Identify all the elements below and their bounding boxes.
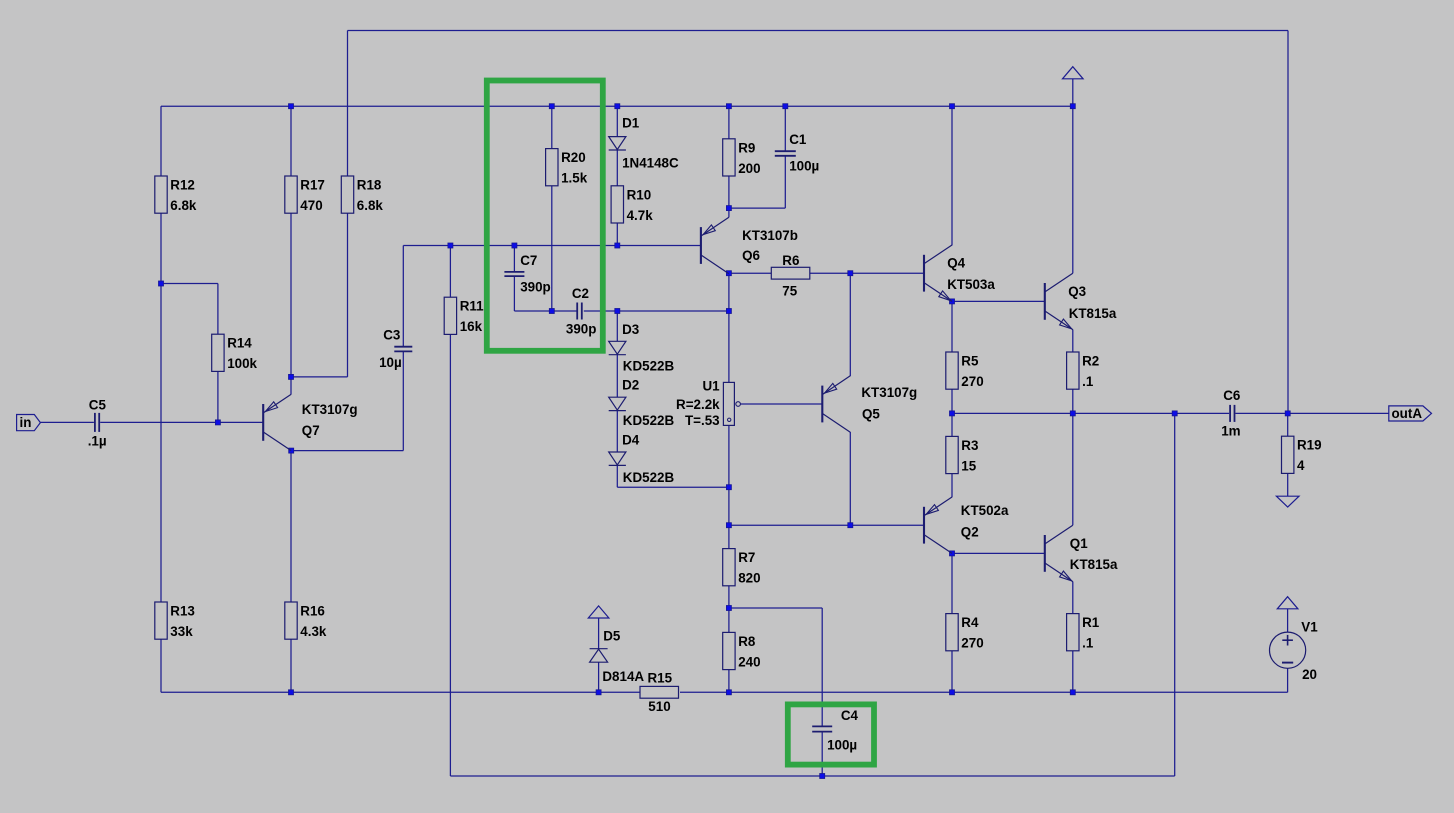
svg-text:20: 20 bbox=[1302, 667, 1317, 682]
svg-text:D5: D5 bbox=[603, 628, 621, 643]
junction R12 bottom bbox=[159, 281, 164, 286]
junction R2 bottom bbox=[1070, 411, 1075, 416]
svg-text:15: 15 bbox=[961, 458, 976, 473]
svg-text:R=2.2k: R=2.2k bbox=[676, 397, 720, 412]
svg-text:C5: C5 bbox=[89, 398, 107, 413]
wire: Q7 collector node to C3 and R16 bbox=[291, 451, 403, 693]
wire: Q3 collector to +V bbox=[1072, 106, 1074, 273]
svg-text:KT503a: KT503a bbox=[947, 277, 995, 292]
svg-text:Q1: Q1 bbox=[1070, 536, 1088, 551]
junction Q7 emitter node bbox=[289, 374, 294, 379]
svg-text:KT3107b: KT3107b bbox=[742, 228, 798, 243]
svg-text:R16: R16 bbox=[300, 604, 325, 619]
svg-text:R8: R8 bbox=[738, 634, 756, 649]
svg-text:R3: R3 bbox=[961, 438, 978, 453]
wire: C1 branch bbox=[729, 106, 785, 208]
junction output node bbox=[1285, 411, 1290, 416]
svg-text:T=.53: T=.53 bbox=[685, 413, 720, 428]
svg-text:C1: C1 bbox=[789, 132, 807, 147]
junction D5 anode bbox=[596, 690, 601, 695]
svg-text:470: 470 bbox=[300, 198, 322, 213]
svg-text:10µ: 10µ bbox=[379, 355, 402, 370]
svg-text:R18: R18 bbox=[357, 178, 382, 193]
svg-text:C2: C2 bbox=[572, 286, 589, 301]
capacitor C7 plates bbox=[504, 272, 524, 276]
resistor R16 body bbox=[285, 602, 297, 639]
wire: R12/R14 link and R14 column bbox=[161, 284, 218, 423]
wire: Q2 emitter stub bbox=[951, 496, 953, 498]
highlight box around C4 bbox=[788, 704, 874, 764]
wire: U1 wiper to Q5 base bbox=[740, 403, 822, 405]
wire: Q6 collector to R6 and U1 column bbox=[729, 273, 924, 382]
junction C2 line end bbox=[726, 309, 731, 314]
svg-text:D1: D1 bbox=[622, 116, 640, 131]
wire: bootstrap top rail from R18 top to output node bbox=[348, 31, 1289, 414]
junction D1 top bbox=[615, 104, 620, 109]
svg-text:Q5: Q5 bbox=[862, 406, 880, 421]
svg-text:270: 270 bbox=[961, 374, 983, 389]
junction Q4 collector top bbox=[950, 104, 955, 109]
wire: C4 branch bbox=[729, 608, 822, 776]
svg-text:820: 820 bbox=[738, 571, 760, 586]
svg-text:KD522B: KD522B bbox=[623, 470, 675, 485]
wire: Q5 emitter to R6 node bbox=[849, 273, 851, 376]
capacitor C5 plates bbox=[95, 413, 99, 432]
junction D4 line bbox=[726, 485, 731, 490]
junction R4 bottom bbox=[950, 690, 955, 695]
svg-text:240: 240 bbox=[738, 654, 760, 669]
junction C4 tap bbox=[726, 606, 731, 611]
svg-text:C3: C3 bbox=[383, 327, 400, 342]
svg-text:4.7k: 4.7k bbox=[627, 208, 654, 223]
svg-text:16k: 16k bbox=[460, 319, 483, 334]
resistor R12 body bbox=[155, 176, 167, 213]
svg-text:R5: R5 bbox=[961, 354, 979, 369]
capacitor C2 plates bbox=[577, 303, 582, 320]
diode D4 bbox=[609, 452, 626, 465]
svg-text:R14: R14 bbox=[227, 336, 252, 351]
junction R20 top bbox=[549, 104, 554, 109]
junction Q4 emitter node bbox=[950, 299, 955, 304]
voltage source V1 bbox=[1270, 632, 1306, 668]
svg-text:R11: R11 bbox=[460, 299, 484, 314]
wire: Q2 base line bbox=[729, 524, 924, 526]
diode D3 bbox=[609, 341, 626, 354]
junction D3 top bbox=[615, 309, 620, 314]
junction Q7 collector node bbox=[289, 448, 294, 453]
junction Q5 emitter node bbox=[848, 271, 853, 276]
junction +V flag node bbox=[1070, 104, 1075, 109]
junction C1 top bbox=[783, 104, 788, 109]
svg-text:Q7: Q7 bbox=[302, 423, 320, 438]
junction R9-C1 node bbox=[726, 206, 731, 211]
wire: ground line bbox=[161, 668, 1288, 692]
wire: +V supply rail bbox=[161, 105, 1073, 107]
transistor Q6 bbox=[701, 217, 729, 273]
wire: D1-R10 branch bbox=[616, 106, 618, 245]
wire: R11 column and feedback bottom line bbox=[450, 246, 1174, 777]
junction R5 bottom bbox=[950, 411, 955, 416]
resistor R14 body bbox=[212, 334, 224, 371]
wire: power flag stem at +V rail bbox=[1072, 79, 1074, 106]
node outA flag bbox=[1389, 406, 1432, 421]
svg-text:KT815a: KT815a bbox=[1069, 306, 1117, 321]
wire: R12-R13 column bbox=[160, 106, 162, 692]
junction R17 top bbox=[289, 104, 294, 109]
svg-text:4.3k: 4.3k bbox=[300, 624, 327, 639]
svg-text:R10: R10 bbox=[627, 187, 652, 202]
power flag above D5 bbox=[588, 606, 609, 618]
svg-text:Q6: Q6 bbox=[742, 248, 760, 263]
wire: R20 branch bbox=[551, 106, 553, 311]
svg-text:KT3107g: KT3107g bbox=[302, 402, 358, 417]
wire: R18 column and link to Q7 emitter bbox=[291, 31, 348, 377]
svg-text:Q3: Q3 bbox=[1068, 284, 1086, 299]
junction Q2 collector node bbox=[950, 551, 955, 556]
svg-text:33k: 33k bbox=[170, 624, 193, 639]
svg-text:R1: R1 bbox=[1082, 615, 1100, 630]
transistor Q1 bbox=[1045, 525, 1073, 581]
svg-text:D814A: D814A bbox=[602, 669, 644, 684]
wire: D3-D2-D4 chain bbox=[617, 311, 729, 487]
power flag at +V rail bbox=[1063, 67, 1084, 79]
svg-text:V1: V1 bbox=[1301, 620, 1318, 635]
wire: input line bbox=[40, 421, 263, 423]
resistor R4 body bbox=[946, 614, 958, 651]
svg-text:R20: R20 bbox=[561, 150, 586, 165]
wire: V1 stem to power flag bbox=[1287, 609, 1289, 632]
svg-text:.1: .1 bbox=[1082, 374, 1094, 389]
wire: output line bbox=[952, 412, 1389, 414]
svg-text:.1: .1 bbox=[1082, 636, 1094, 651]
highlight box around R20/C7/C2 bbox=[487, 81, 603, 351]
resistor R5 body bbox=[946, 352, 958, 389]
wire: Q1 collector to output node bbox=[1072, 413, 1074, 525]
power flag above V1 bbox=[1277, 597, 1298, 609]
svg-text:Q2: Q2 bbox=[961, 524, 979, 539]
svg-text:D4: D4 bbox=[622, 433, 640, 448]
diode D2 bbox=[609, 397, 626, 410]
svg-text:C4: C4 bbox=[841, 708, 859, 723]
transistor Q7 bbox=[263, 394, 291, 450]
wire: C7 branch bbox=[513, 246, 515, 312]
svg-text:R4: R4 bbox=[961, 615, 979, 630]
svg-text:200: 200 bbox=[738, 161, 760, 176]
junction Q6 collector bbox=[726, 271, 731, 276]
svg-text:R2: R2 bbox=[1082, 354, 1099, 369]
junction R1 bottom bbox=[1070, 690, 1075, 695]
resistor R2 body bbox=[1067, 352, 1079, 389]
wire: Q5 collector to Q2 base line bbox=[849, 432, 851, 525]
svg-text:in: in bbox=[20, 415, 32, 430]
junction C4 bottom bbox=[820, 774, 825, 779]
wire: R19 branch bbox=[1287, 413, 1289, 496]
resistor R11 body bbox=[444, 297, 456, 334]
wire: Q6 emitter stub bbox=[728, 208, 730, 217]
transistor Q3 bbox=[1045, 273, 1073, 329]
wire: Q7 emitter stub bbox=[290, 377, 292, 394]
svg-text:KT3107g: KT3107g bbox=[861, 385, 917, 400]
junction Q2 base line bbox=[726, 523, 731, 528]
junction R14 bottom bbox=[215, 420, 220, 425]
wire: C3 column bbox=[403, 246, 450, 451]
svg-text:100µ: 100µ bbox=[789, 159, 819, 174]
svg-text:U1: U1 bbox=[702, 378, 720, 393]
junction R10 bottom bbox=[615, 243, 620, 248]
junction R20 bottom bbox=[549, 309, 554, 314]
junction Q5 collector node bbox=[848, 523, 853, 528]
wire: Q4 emitter to Q3 base bbox=[952, 300, 1045, 302]
svg-text:510: 510 bbox=[648, 699, 670, 714]
svg-text:4: 4 bbox=[1297, 458, 1305, 473]
svg-text:.1µ: .1µ bbox=[88, 434, 107, 449]
svg-text:270: 270 bbox=[961, 636, 983, 651]
wire: D5 branch bbox=[598, 618, 600, 692]
svg-text:R9: R9 bbox=[738, 140, 755, 155]
capacitor C1 plates bbox=[775, 151, 796, 156]
node in flag bbox=[17, 415, 41, 431]
svg-text:R6: R6 bbox=[782, 253, 799, 268]
svg-text:6.8k: 6.8k bbox=[170, 198, 197, 213]
capacitor C4 plates bbox=[812, 726, 832, 731]
resistor R10 body bbox=[611, 186, 623, 223]
svg-text:R7: R7 bbox=[738, 550, 755, 565]
svg-text:75: 75 bbox=[782, 283, 797, 298]
resistor R18 body bbox=[341, 176, 353, 213]
capacitor C3 plates bbox=[394, 347, 412, 352]
junction R11 top bbox=[448, 243, 453, 248]
svg-text:D3: D3 bbox=[622, 322, 639, 337]
wire: C2 line bbox=[514, 310, 729, 312]
resistor R9 body bbox=[723, 139, 735, 176]
svg-text:KD522B: KD522B bbox=[623, 359, 675, 374]
wire: Q2 collector to Q1 base and R4 bbox=[952, 553, 1045, 692]
wire: U1 lower column with taps bbox=[728, 425, 730, 692]
svg-text:C7: C7 bbox=[520, 253, 537, 268]
zener diode D5 bbox=[590, 649, 608, 663]
junction R16 bottom bbox=[289, 690, 294, 695]
svg-text:R15: R15 bbox=[648, 671, 673, 686]
svg-text:C6: C6 bbox=[1223, 388, 1240, 403]
resistor R8 body bbox=[723, 632, 735, 669]
capacitor C6 plates bbox=[1230, 405, 1234, 422]
resistor R6 body bbox=[771, 267, 810, 279]
svg-text:6.8k: 6.8k bbox=[357, 198, 384, 213]
transistor Q2 bbox=[924, 497, 952, 553]
svg-text:R12: R12 bbox=[170, 178, 195, 193]
svg-text:100µ: 100µ bbox=[827, 737, 857, 752]
resistor R7 body bbox=[723, 549, 735, 586]
junction R9 top bbox=[726, 104, 731, 109]
svg-text:Q4: Q4 bbox=[947, 255, 965, 270]
wire: R5 branch bbox=[951, 301, 953, 413]
svg-text:R17: R17 bbox=[300, 178, 325, 193]
wire: Q1 emitter to R1 bbox=[1072, 582, 1074, 693]
junction feedback tap bbox=[1172, 411, 1177, 416]
wire: Q6 base line bbox=[450, 245, 701, 247]
resistor R13 body bbox=[155, 602, 167, 639]
ground flag below R19 bbox=[1276, 496, 1299, 507]
resistor R20 body bbox=[546, 149, 558, 186]
svg-text:KT502a: KT502a bbox=[961, 503, 1009, 518]
svg-text:1m: 1m bbox=[1221, 424, 1240, 439]
svg-text:KT815a: KT815a bbox=[1070, 557, 1118, 572]
svg-text:D2: D2 bbox=[622, 378, 639, 393]
diode D1 bbox=[609, 137, 626, 150]
transistor Q5 bbox=[822, 376, 850, 432]
svg-text:KD522B: KD522B bbox=[623, 413, 675, 428]
potentiometer U1 bbox=[723, 382, 740, 425]
wire: R3 to Q2 emitter bbox=[951, 413, 953, 497]
resistor R15 body bbox=[640, 686, 679, 698]
resistor R3 body bbox=[946, 436, 958, 473]
junction R8 bottom bbox=[726, 690, 731, 695]
svg-text:outA: outA bbox=[1392, 406, 1423, 421]
svg-text:R13: R13 bbox=[170, 604, 195, 619]
svg-text:390p: 390p bbox=[520, 279, 551, 294]
wire: R9 branch bbox=[728, 106, 730, 208]
svg-text:R19: R19 bbox=[1297, 438, 1322, 453]
transistor Q4 bbox=[924, 245, 952, 301]
resistor R1 body bbox=[1067, 614, 1079, 651]
resistor R17 body bbox=[285, 176, 297, 213]
junction C7 top bbox=[512, 243, 517, 248]
svg-text:390p: 390p bbox=[566, 322, 597, 337]
svg-text:100k: 100k bbox=[227, 356, 257, 371]
svg-text:1N4148C: 1N4148C bbox=[622, 155, 679, 170]
svg-text:1.5k: 1.5k bbox=[561, 171, 588, 186]
wire: R17 column bbox=[290, 106, 292, 377]
resistor R19 body bbox=[1282, 436, 1294, 473]
wire: Q3 emitter to R2 bbox=[1072, 330, 1074, 414]
wire: Q4 collector to +V bbox=[951, 106, 953, 245]
